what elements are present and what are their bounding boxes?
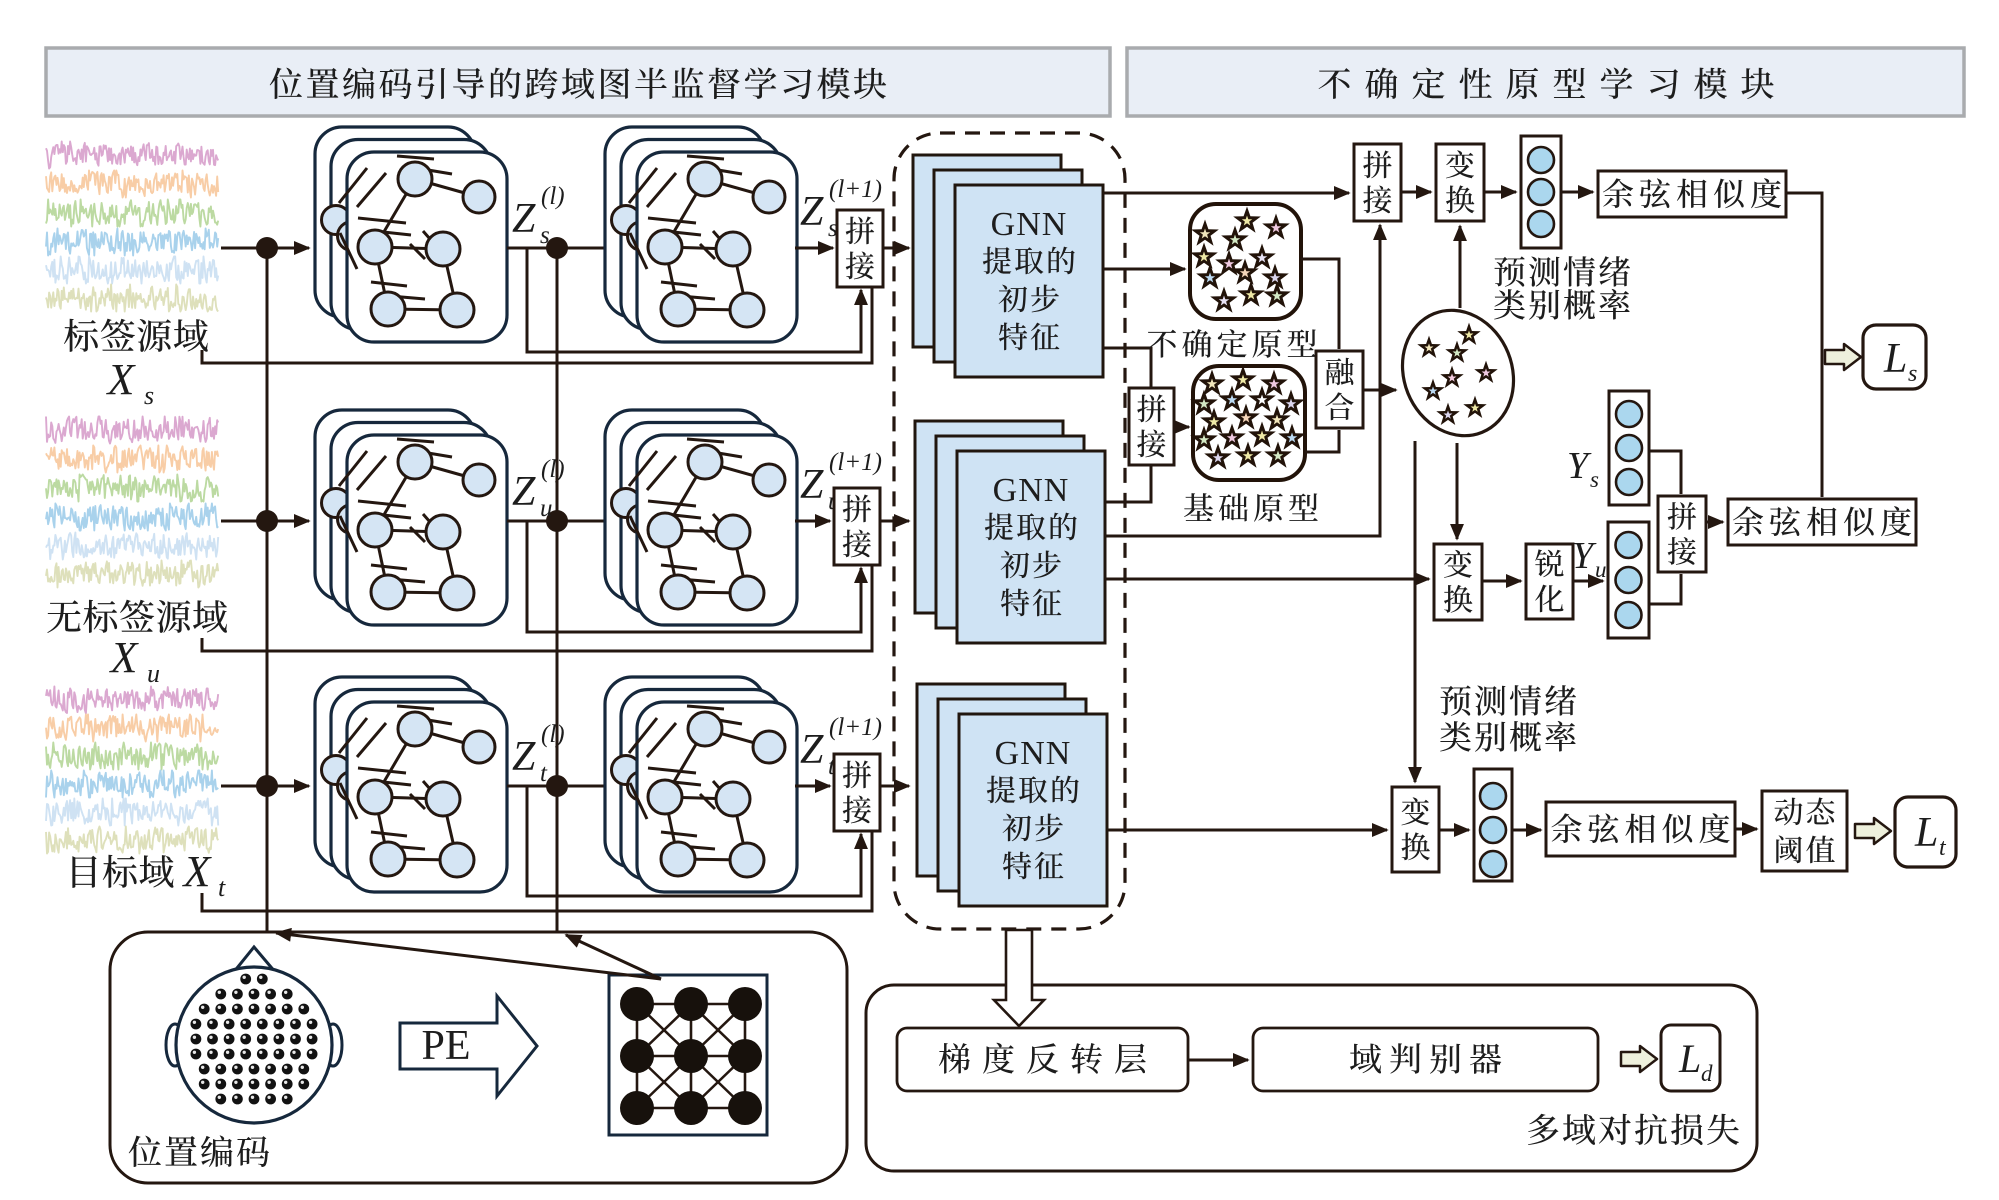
wire: GNN1 bottom output to concat-B bbox=[1103, 348, 1151, 387]
wire: GNN2 mid output up to concat-P bbox=[1105, 225, 1380, 536]
label: Z_t^(l) bbox=[512, 721, 565, 787]
column: predicted probability vector 3 bbox=[1474, 769, 1512, 881]
graph-stack 1 row u (layer l) bbox=[315, 410, 507, 625]
GNN feature stack row s bbox=[913, 155, 1103, 377]
EEG signal bundle 2 bbox=[46, 417, 218, 588]
wire: Ys to concat-Y bbox=[1649, 451, 1681, 494]
wire: GNN2 bottom output to transform-2 bbox=[1105, 578, 1429, 581]
box: transform-2 (bianhuan) bbox=[1434, 544, 1482, 620]
EEG electrode head (cap) bbox=[166, 947, 342, 1123]
label: Z_u^(l) bbox=[512, 456, 565, 522]
box: cosine similarity 1 bbox=[1598, 171, 1786, 217]
label: Z_s^(l+1) bbox=[800, 176, 882, 242]
wire: GNN1 top output to concat-P bbox=[1103, 192, 1349, 195]
box: cosine similarity 2 bbox=[1728, 499, 1916, 545]
wire: prob column 1 to cosine-1 bbox=[1561, 191, 1593, 194]
svg-text:X: X bbox=[106, 355, 137, 404]
svg-text:L: L bbox=[1678, 1036, 1701, 1081]
wire: skip connection X to concat row t bbox=[202, 832, 872, 911]
svg-text:X: X bbox=[109, 633, 140, 682]
box: uncertain prototypes (stars) bbox=[1190, 204, 1301, 319]
wire: Yu to concat-Y bbox=[1649, 574, 1681, 604]
svg-text:X: X bbox=[182, 847, 213, 896]
box: loss Ls bbox=[1863, 325, 1926, 389]
open arrow: into Lt bbox=[1855, 818, 1891, 844]
svg-text:u: u bbox=[540, 495, 553, 522]
wire: cosine-1 down to cosine-2 bbox=[1786, 193, 1822, 497]
container: multi-domain adversarial loss module bbox=[866, 985, 1757, 1171]
label: multi-domain adversarial loss bbox=[1528, 1114, 1739, 1145]
wire: stack2 to concat row t bbox=[795, 785, 830, 788]
label: base prototypes bbox=[1184, 493, 1318, 522]
hollow arrow: GNN features down to adversarial module bbox=[994, 930, 1044, 1026]
label: Z_u^(l+1) bbox=[800, 449, 882, 515]
svg-text:u: u bbox=[147, 659, 160, 688]
wire: input arrow row t bbox=[221, 785, 309, 788]
box: transform-1 (bianhuan) bbox=[1436, 144, 1484, 221]
wire: uncertain prototypes to fusion bbox=[1301, 259, 1339, 349]
column: predicted probability vector 1 bbox=[1521, 136, 1561, 248]
grid graph box (3x3 electrode graph) bbox=[609, 975, 767, 1135]
svg-text:Z: Z bbox=[512, 469, 536, 515]
wire: concat-P to transform-1 bbox=[1401, 191, 1431, 194]
svg-text:(l+1): (l+1) bbox=[829, 714, 882, 741]
wire: input arrow row s bbox=[221, 247, 309, 250]
svg-text:L: L bbox=[1914, 810, 1938, 856]
svg-text:(l): (l) bbox=[541, 456, 565, 483]
box: gradient reversal layer bbox=[897, 1028, 1188, 1091]
box: concat (pinjie) row u bbox=[834, 488, 880, 565]
wire: transform-1 to prob column 1 bbox=[1484, 191, 1516, 194]
open arrow: into Ls bbox=[1825, 344, 1861, 370]
box: concat-P (pinjie) top right bbox=[1354, 144, 1401, 221]
node: junction dot A row u bbox=[256, 510, 278, 532]
wire: GNN1 mid output to uncertain prototypes bbox=[1103, 268, 1185, 271]
svg-text:Z: Z bbox=[512, 734, 536, 780]
svg-text:(l): (l) bbox=[541, 721, 565, 748]
svg-text:Z: Z bbox=[800, 462, 824, 508]
wire: cosine-3 to dynamic threshold bbox=[1735, 828, 1757, 831]
wire: GNN2 top output to concat-B bbox=[1105, 466, 1151, 502]
box: domain discriminator bbox=[1253, 1028, 1598, 1091]
dashed container: GNN preliminary features bbox=[894, 133, 1125, 929]
EEG signal bundle 1 bbox=[46, 142, 218, 312]
wire: ellipse bottom to transform-2 bbox=[1456, 443, 1459, 539]
svg-text:d: d bbox=[1701, 1061, 1713, 1086]
svg-text:PE: PE bbox=[421, 1023, 470, 1069]
node: junction dot B row t bbox=[546, 775, 568, 797]
PE hollow arrow bbox=[400, 996, 537, 1096]
column: Ys one-hot labels bbox=[1609, 391, 1649, 505]
wire: prob column 3 to cosine-3 bbox=[1512, 829, 1541, 832]
svg-text:u: u bbox=[1595, 557, 1607, 582]
svg-text:Z: Z bbox=[800, 727, 824, 773]
wire: base prototypes to fusion bbox=[1305, 430, 1339, 452]
label: Z_s^(l) bbox=[512, 183, 565, 249]
box: loss Ld bbox=[1661, 1025, 1720, 1091]
wire: concat to GNN row u bbox=[880, 520, 909, 523]
node: junction dot B row u bbox=[546, 510, 568, 532]
header bar: right module title bbox=[1127, 48, 1964, 116]
wire: GRL to domain discriminator bbox=[1188, 1059, 1248, 1062]
wire: skip connection Z^(l) to concat row u bbox=[527, 521, 861, 632]
label: Yu bbox=[1572, 535, 1607, 582]
wire: concat-B to base prototypes bbox=[1174, 426, 1189, 429]
box: cosine similarity 3 bbox=[1546, 802, 1735, 856]
header bar: left module title bbox=[46, 48, 1110, 116]
ellipse: fused prototype set bbox=[1384, 293, 1532, 452]
wire: concat to GNN row s bbox=[883, 247, 909, 250]
label: uncertain prototypes bbox=[1148, 329, 1317, 358]
wire: skip connection X to concat row u bbox=[202, 566, 872, 651]
EEG signal bundle 3 bbox=[46, 687, 218, 854]
graph-stack 2 row s (layer l+1) bbox=[605, 127, 797, 342]
svg-text:(l): (l) bbox=[541, 183, 565, 210]
wire: GNN3 output to transform-3 bbox=[1107, 829, 1387, 832]
box: concat-Y (pinjie) bbox=[1658, 496, 1706, 572]
wire: stack2 to concat row s bbox=[795, 247, 833, 250]
open arrow: into Ld bbox=[1621, 1046, 1657, 1072]
svg-text:s: s bbox=[1590, 467, 1599, 492]
wire: between stacks row s bbox=[507, 247, 632, 250]
svg-text:t: t bbox=[540, 760, 548, 787]
box: fusion (ronghe) bbox=[1316, 351, 1363, 428]
wire: between stacks row t bbox=[507, 785, 632, 788]
svg-text:Z: Z bbox=[800, 189, 824, 235]
node: junction dot A row s bbox=[256, 237, 278, 259]
wire: concat to GNN row t bbox=[880, 785, 909, 788]
box: transform-3 (bianhuan) bbox=[1392, 787, 1439, 872]
svg-text:s: s bbox=[144, 381, 154, 410]
node: junction dot B row s bbox=[546, 237, 568, 259]
svg-text:s: s bbox=[540, 222, 550, 249]
graph-stack 2 row t (layer l+1) bbox=[605, 677, 797, 892]
GNN feature stack row t bbox=[917, 684, 1107, 906]
wire: stack2 to concat row u bbox=[795, 520, 830, 523]
wire: ellipse top to transform-1 bbox=[1459, 226, 1462, 308]
box: dynamic threshold bbox=[1762, 791, 1847, 871]
box: concat (pinjie) row t bbox=[834, 754, 880, 831]
label: labeled source domain Xs bbox=[64, 319, 208, 410]
column: Yu pseudo labels bbox=[1608, 522, 1649, 638]
GNN feature stack row u bbox=[915, 421, 1105, 643]
node: junction dot A row t bbox=[256, 775, 278, 797]
wire: column from dot A down to position-encoding module bbox=[266, 248, 269, 931]
svg-text:(l+1): (l+1) bbox=[829, 449, 882, 476]
wire: transform-3 to prob column 3 bbox=[1439, 829, 1469, 832]
label: target domain Xt bbox=[72, 847, 226, 902]
wire: skip connection X to concat row s bbox=[202, 288, 872, 363]
wire: between stacks row u bbox=[507, 520, 632, 523]
wire: transform-2 to sharpen bbox=[1482, 580, 1521, 583]
wire: fusion to prototype ellipse bbox=[1363, 389, 1396, 392]
graph-stack 1 row t (layer l) bbox=[315, 677, 507, 892]
svg-text:s: s bbox=[1908, 361, 1917, 387]
wire: concat-Y to cosine-2 bbox=[1706, 521, 1723, 524]
wire: PE output to column B bbox=[566, 935, 661, 979]
wire: ellipse bottom to transform-3 bbox=[1414, 441, 1417, 782]
svg-text:L: L bbox=[1883, 336, 1907, 382]
wire: column from dot B down to position-encoding module bbox=[556, 248, 559, 931]
wire: input arrow row u bbox=[221, 520, 309, 523]
box: concat-B (pinjie) for base prototypes bbox=[1129, 388, 1174, 465]
label: predicted emotion class prob (bottom) bbox=[1440, 685, 1576, 752]
wire: skip connection Z^(l) to concat row s bbox=[527, 248, 861, 352]
wire: sharpen to Yu column bbox=[1573, 580, 1603, 583]
label: unlabeled source domain Xu bbox=[47, 600, 227, 688]
wire: skip connection Z^(l) to concat row t bbox=[527, 786, 861, 896]
svg-text:t: t bbox=[218, 873, 226, 902]
box: base prototypes (stars) bbox=[1190, 365, 1306, 480]
wire: PE output to column A bbox=[276, 933, 661, 979]
label: predicted emotion class prob (top) bbox=[1494, 256, 1630, 320]
container: position encoding module bbox=[110, 932, 847, 1183]
box: loss Lt bbox=[1895, 797, 1956, 867]
box: sharpen (ruihua) bbox=[1526, 544, 1573, 619]
label: Ys bbox=[1567, 445, 1599, 492]
graph-stack 2 row u (layer l+1) bbox=[605, 410, 797, 625]
graph-stack 1 row s (layer l) bbox=[315, 127, 507, 342]
svg-text:(l+1): (l+1) bbox=[829, 176, 882, 203]
svg-text:Z: Z bbox=[512, 196, 536, 242]
box: concat (pinjie) row s bbox=[837, 210, 883, 287]
label: Z_t^(l+1) bbox=[800, 714, 882, 780]
label: position encoding bbox=[129, 1135, 269, 1167]
